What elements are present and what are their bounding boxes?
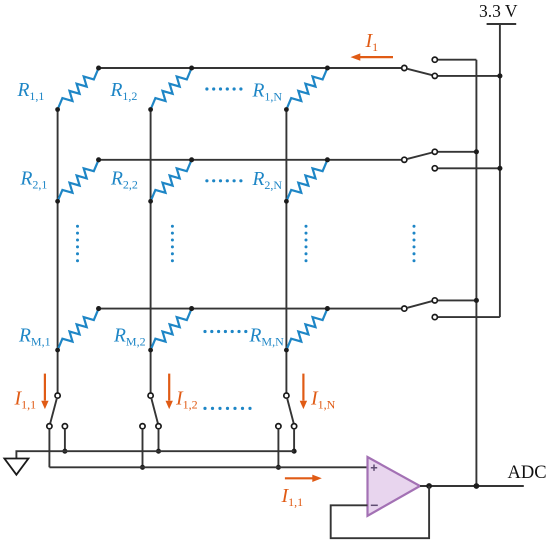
node throwB2-3.3V junction bbox=[497, 166, 502, 171]
switch S_col1 lever bbox=[50, 398, 57, 424]
resistor R2,1 bbox=[58, 160, 99, 202]
svg-text:R2,N: R2,N bbox=[252, 169, 283, 192]
node col1-R11 junction bbox=[55, 107, 60, 112]
switch S_col1 throw A contact (sense) bbox=[47, 424, 52, 429]
ellipsis hidden rows col 1 bbox=[76, 225, 79, 263]
resistor R2,N bbox=[286, 160, 327, 202]
3.3V supply bar bbox=[487, 23, 517, 25]
switch S_colN throw A wire to sense bus bbox=[277, 429, 279, 468]
ellipsis row M columns bbox=[203, 330, 247, 333]
node rowM-RMN junction bbox=[325, 306, 330, 311]
resistor RM,2 bbox=[151, 309, 192, 351]
switch S_col1 throw B wire to ground bus bbox=[64, 429, 66, 451]
current I1,1 column arrow bbox=[44, 374, 46, 401]
switch S_row2 throw A wire to inner rail bbox=[437, 151, 476, 153]
switch S_row1 pole bbox=[402, 65, 407, 70]
switch S_rowM throw B contact bbox=[432, 315, 437, 320]
ellipsis hidden rows switch column bbox=[413, 225, 416, 263]
svg-text:R1,N: R1,N bbox=[252, 81, 283, 104]
ellipsis hidden rows col 2 bbox=[171, 225, 174, 263]
switch S_colN throw B contact (ground) bbox=[292, 424, 297, 429]
net sense bus wire to buffer bbox=[49, 466, 367, 468]
switch S_row2 throw B wire to 3.3V bbox=[437, 167, 500, 169]
svg-text:I1,1: I1,1 bbox=[281, 485, 304, 509]
node row1-R1N junction bbox=[325, 65, 330, 70]
switch S_col1 pole bbox=[55, 393, 60, 398]
net ground bus wire bbox=[16, 451, 294, 458]
node row2-R22 junction bbox=[189, 157, 194, 162]
node colN throwB-ground bus end junction bbox=[292, 449, 297, 454]
node col1 throwB-ground bus junction bbox=[62, 449, 67, 454]
op-amp U1 buffer bbox=[368, 457, 421, 516]
current I1,1 sense arrow bbox=[285, 477, 313, 479]
resistor R1,1 bbox=[58, 68, 99, 110]
ellipsis hidden rows col N bbox=[305, 225, 308, 263]
svg-text:RM,N: RM,N bbox=[249, 326, 285, 349]
svg-text:R2,2: R2,2 bbox=[110, 168, 138, 191]
row 1 wire bbox=[99, 67, 402, 69]
svg-text:I1: I1 bbox=[365, 30, 379, 54]
switch S_col1 throw B contact (ground) bbox=[62, 424, 67, 429]
switch S_colN throw B wire to ground bus bbox=[293, 429, 295, 451]
svg-text:RM,1: RM,1 bbox=[18, 326, 51, 349]
current I1,2 column arrow bbox=[168, 374, 170, 401]
node throwB1-3.3V junction bbox=[497, 73, 502, 78]
node colN-R2N junction bbox=[284, 199, 289, 204]
switch S_rowM lever bbox=[407, 301, 433, 308]
ellipsis hidden column currents bbox=[203, 407, 251, 410]
node col2-RM2 junction bbox=[148, 348, 153, 353]
ellipsis row 1 columns bbox=[205, 87, 242, 90]
node colN-RMN junction bbox=[284, 348, 289, 353]
ground bbox=[4, 459, 28, 475]
row 2 wire bbox=[99, 159, 402, 161]
node output-feedback junction bbox=[426, 483, 432, 489]
node col2 throwB-ground bus junction bbox=[156, 449, 161, 454]
column 1 wire bbox=[57, 110, 59, 394]
switch S_row1 throw A contact bbox=[432, 57, 437, 62]
row M wire bbox=[99, 308, 402, 310]
node colN-R1N junction bbox=[284, 107, 289, 112]
node throwA2-inner rail junction bbox=[474, 149, 479, 154]
switch S_row2 pole bbox=[402, 157, 407, 162]
switch S_colN lever bbox=[287, 398, 294, 424]
svg-text:I1,N: I1,N bbox=[310, 388, 336, 412]
switch S_row1 lever bbox=[407, 69, 433, 76]
ellipsis row 2 columns bbox=[205, 179, 242, 182]
switch S_col2 throw B contact (ground) bbox=[156, 424, 161, 429]
node throwAM-inner rail junction bbox=[474, 298, 479, 303]
op-amp U1 feedback wire bbox=[331, 486, 429, 538]
switch S_col2 pole bbox=[148, 393, 153, 398]
svg-text:R2,1: R2,1 bbox=[20, 168, 48, 191]
op-amp U1 plus input mark bbox=[371, 465, 377, 471]
switch S_col2 lever bbox=[151, 398, 158, 424]
svg-text:3.3 V: 3.3 V bbox=[479, 1, 518, 21]
node row1-R12 junction bbox=[189, 65, 194, 70]
svg-text:I1,1: I1,1 bbox=[14, 388, 37, 412]
switch S_row1 throw B wire to 3.3V bbox=[437, 75, 500, 77]
switch S_rowM throw A contact bbox=[432, 298, 437, 303]
current I1,N column arrow bbox=[302, 374, 304, 401]
switch S_rowM throw B wire to 3.3V bbox=[437, 316, 500, 318]
resistor RM,1 bbox=[58, 309, 99, 351]
node col1-R21 junction bbox=[55, 199, 60, 204]
svg-text:I1,2: I1,2 bbox=[175, 388, 198, 412]
switch S_rowM pole bbox=[402, 306, 407, 311]
net 3.3V rail wire bbox=[499, 23, 501, 317]
node rowM-RM2 junction bbox=[189, 306, 194, 311]
net VSEL inner rail wire (to buffer output) bbox=[475, 60, 477, 486]
switch S_rowM throw A wire to inner rail bbox=[437, 299, 476, 301]
switch S_col2 throw A contact (sense) bbox=[140, 424, 145, 429]
svg-text:ADC: ADC bbox=[508, 463, 547, 483]
op-amp U1 output wire to ADC bbox=[420, 485, 524, 487]
node col2-R12 junction bbox=[148, 107, 153, 112]
switch S_colN throw A contact (sense) bbox=[276, 424, 281, 429]
node col1-RM1 junction bbox=[55, 348, 60, 353]
switch S_row2 lever bbox=[407, 153, 433, 160]
svg-text:RM,2: RM,2 bbox=[113, 326, 146, 349]
column N wire bbox=[285, 110, 287, 394]
switch S_col2 throw B wire to ground bus bbox=[158, 429, 160, 451]
node rowM-RM1 junction bbox=[96, 306, 101, 311]
current I1 arrow bbox=[359, 56, 393, 58]
node row2-R21 junction bbox=[96, 157, 101, 162]
svg-text:R1,2: R1,2 bbox=[110, 80, 138, 103]
svg-text:R1,1: R1,1 bbox=[17, 80, 45, 103]
switch S_row2 throw B contact bbox=[432, 166, 437, 171]
switch S_col2 throw A wire to sense bus bbox=[142, 429, 144, 468]
resistor R1,2 bbox=[151, 68, 192, 110]
node colN throwA-sense bus junction bbox=[276, 465, 281, 470]
resistor R2,2 bbox=[151, 160, 192, 202]
switch S_row1 throw A wire to inner rail bbox=[437, 59, 476, 61]
switch S_col1 throw A wire to sense bus bbox=[48, 429, 50, 468]
column 2 wire bbox=[150, 110, 152, 394]
switch S_row2 throw A contact bbox=[432, 149, 437, 154]
node row1-R11 junction bbox=[96, 65, 101, 70]
resistor R1,N bbox=[286, 68, 327, 110]
node col2 throwA-sense bus junction bbox=[140, 465, 145, 470]
switch S_colN pole bbox=[284, 393, 289, 398]
op-amp U1 minus input mark bbox=[371, 504, 378, 506]
switch S_row1 throw B contact bbox=[432, 73, 437, 78]
node output-inner rail junction bbox=[474, 483, 480, 489]
resistor RM,N bbox=[286, 309, 327, 351]
node row2-R2N junction bbox=[325, 157, 330, 162]
node col2-R22 junction bbox=[148, 199, 153, 204]
